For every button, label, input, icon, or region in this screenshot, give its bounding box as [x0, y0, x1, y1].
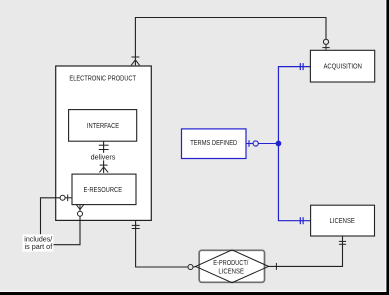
wire: blue bus (vertical with branches to ACQUISITION and LICENSE): [278, 67, 310, 221]
connector: one-and-only-one double bar below INTERFACE: [99, 145, 109, 149]
connector: one-and-only-one double bar below LICENSE: [339, 241, 346, 244]
svg-text:INTERFACE: INTERFACE: [87, 121, 119, 130]
connector: double bar on LICENSE branch: [300, 217, 303, 224]
relationship container (rounded rect): [199, 250, 264, 282]
connector: one-to-many crow's foot at top of ELECTRONIC PRODUCT: [131, 57, 139, 65]
svg-text:LICENSE: LICENSE: [330, 216, 355, 225]
connector: double bar on ACQUISITION branch: [300, 63, 303, 70]
entity LICENSE: [311, 205, 375, 236]
svg-text:LICENSE: LICENSE: [218, 266, 244, 275]
svg-text:is part of: is part of: [25, 242, 54, 251]
connector: one-or-many (bar + crow's foot) above E-RESOURCE: [99, 165, 108, 172]
wire: diamond to LICENSE: [269, 236, 343, 266]
svg-text:ELECTRONIC PRODUCT: ELECTRONIC PRODUCT: [69, 74, 136, 83]
entity ACQUISITION: [310, 50, 374, 82]
wire: top bus from ELECTRONIC PRODUCT to ACQUISITION: [135, 18, 326, 66]
connector: ring before diamond left vertex: [188, 265, 196, 270]
wire: ELECTRONIC PRODUCT bottom to relationship diamond: [136, 220, 188, 267]
connector: optional-one (ring + bar) at top of ACQUISITION: [322, 39, 329, 50]
connector: crow's foot + ring below E-RESOURCE: [76, 205, 84, 217]
svg-text:TERMS DEFINED: TERMS DEFINED: [190, 138, 237, 147]
wire: recursive relationship left branch into E-RESOURCE: [41, 198, 61, 234]
label includes/ is part of: [23, 234, 54, 251]
label delivers: [90, 152, 116, 161]
connector: single bar right of diamond: [275, 263, 277, 270]
entity E-RESOURCE: [72, 174, 136, 205]
connector: ring + bar into left side of E-RESOURCE: [60, 195, 72, 202]
svg-text:E-RESOURCE: E-RESOURCE: [84, 185, 123, 194]
relationship diamond E-PRODUCT/LICENSE: [196, 250, 269, 283]
connector: bar + ring from TERMS DEFINED to bus: [246, 140, 278, 147]
wire: recursive relationship bottom branch from E-RESOURCE: [54, 216, 81, 244]
wire: delivers relationship INTERFACE to E-RESOURCE: [103, 141, 105, 173]
svg-text:delivers: delivers: [91, 152, 116, 161]
connector: double bar below ELECTRONIC PRODUCT: [132, 225, 140, 228]
frame highlight edges: [0, 291, 386, 292]
entity ELECTRONIC PRODUCT: [56, 66, 152, 220]
junction dot on blue bus: [276, 141, 282, 147]
svg-text:ACQUISITION: ACQUISITION: [323, 62, 362, 71]
entity TERMS DEFINED (blue): [182, 129, 247, 159]
entity INTERFACE: [69, 110, 137, 142]
